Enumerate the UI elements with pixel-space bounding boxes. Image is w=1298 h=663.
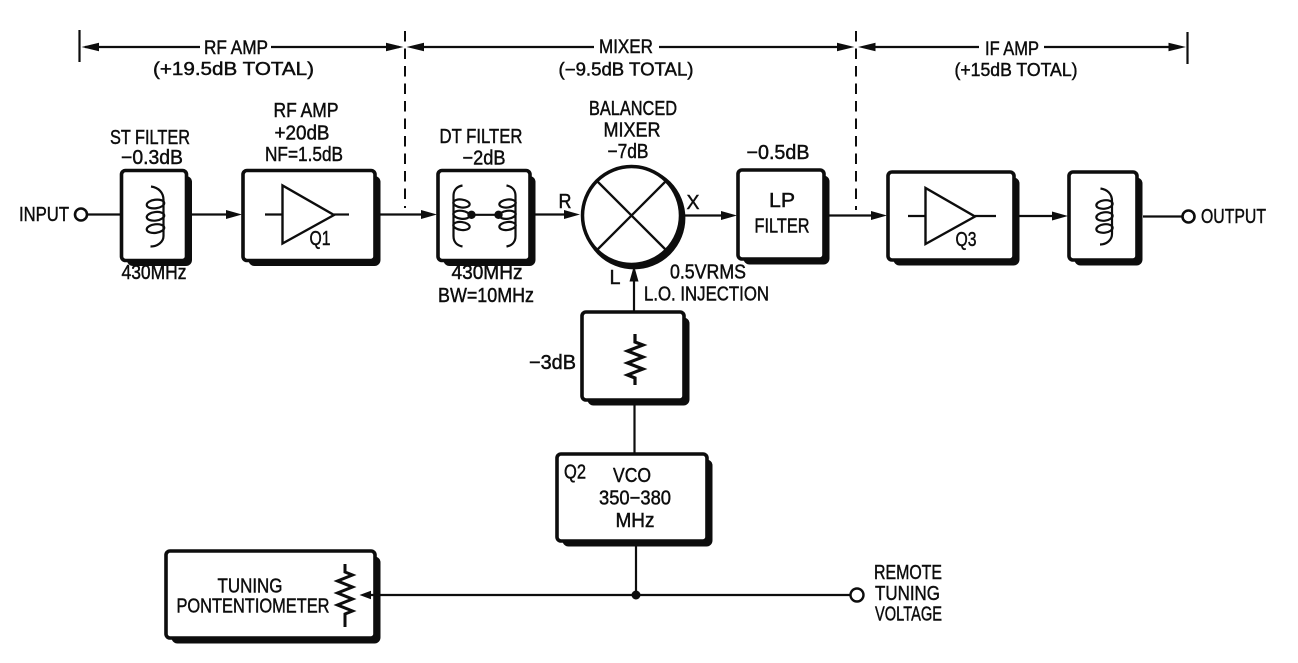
block LP FILTER xyxy=(738,142,830,265)
svg-text:VCO: VCO xyxy=(613,465,651,487)
transformer coil right inside DT filter xyxy=(499,186,516,247)
block FL1 ST FILTER xyxy=(110,127,192,284)
svg-text:−0.5dB: −0.5dB xyxy=(747,142,810,164)
svg-text:L: L xyxy=(610,267,621,289)
svg-text:430MHz: 430MHz xyxy=(122,262,187,284)
wire VCO to tuning junction xyxy=(635,546,637,595)
svg-text:L.O. INJECTION: L.O. INJECTION xyxy=(644,284,769,306)
svg-text:IF AMP: IF AMP xyxy=(985,39,1039,60)
bracket span RF AMP (+19.5dB TOTAL) xyxy=(80,30,404,79)
wire DT filter to mixer R port xyxy=(533,191,580,219)
wire RF amp to DT filter xyxy=(380,210,437,219)
balanced mixer xyxy=(583,98,683,267)
junction node xyxy=(632,591,641,600)
svg-text:NF=1.5dB: NF=1.5dB xyxy=(265,144,343,166)
svg-text:REMOTE: REMOTE xyxy=(874,562,942,584)
svg-text:RF AMP: RF AMP xyxy=(274,100,339,122)
svg-text:(+15dB TOTAL): (+15dB TOTAL) xyxy=(955,60,1078,80)
REMOTE TUNING VOLTAGE terminal xyxy=(851,562,943,626)
amplifier block Q1 RF AMP xyxy=(243,100,381,266)
block output filter xyxy=(1069,172,1143,266)
svg-text:DT FILTER: DT FILTER xyxy=(440,126,523,148)
svg-text:−3dB: −3dB xyxy=(529,352,576,374)
block -3dB attenuator xyxy=(529,312,690,406)
svg-text:−7dB: −7dB xyxy=(608,141,649,163)
svg-text:TUNING: TUNING xyxy=(875,583,940,605)
svg-text:X: X xyxy=(687,192,700,214)
amplifier triangle Q1 xyxy=(265,186,349,251)
inductor coil inside ST filter xyxy=(146,187,165,247)
section divider dashed line MIXER/IF xyxy=(855,31,857,210)
svg-text:BALANCED: BALANCED xyxy=(589,98,677,120)
svg-text:430MHz: 430MHz xyxy=(452,262,523,284)
transformer coil left inside DT filter xyxy=(453,186,470,247)
svg-text:FILTER: FILTER xyxy=(755,216,810,238)
svg-text:(+19.5dB TOTAL): (+19.5dB TOTAL) xyxy=(153,59,314,79)
bracket span MIXER (-9.5dB TOTAL) xyxy=(407,37,855,80)
svg-text:−0.3dB: −0.3dB xyxy=(121,147,183,169)
svg-text:350−380: 350−380 xyxy=(599,488,671,510)
svg-text:0.5VRMS: 0.5VRMS xyxy=(670,262,746,284)
section divider dashed line RF/MIXER xyxy=(404,31,406,208)
wire mixer X port to LP filter xyxy=(682,192,737,220)
svg-text:PONTENTIOMETER: PONTENTIOMETER xyxy=(177,596,330,618)
svg-text:MHz: MHz xyxy=(616,510,655,532)
svg-text:Q2: Q2 xyxy=(564,462,586,484)
block DT FILTER xyxy=(438,126,536,307)
wire input to ST filter xyxy=(88,213,123,215)
svg-text:R: R xyxy=(559,191,572,213)
OUTPUT terminal xyxy=(1183,206,1267,228)
svg-text:(−9.5dB TOTAL): (−9.5dB TOTAL) xyxy=(559,60,694,80)
coupling link with taps inside DT filter xyxy=(467,211,502,219)
inductor coil inside output filter xyxy=(1096,189,1113,245)
wire ST filter to RF amp xyxy=(192,210,243,219)
svg-text:+20dB: +20dB xyxy=(275,123,330,145)
bracket span IF AMP (+15dB TOTAL) xyxy=(858,32,1188,80)
wire attenuator to VCO xyxy=(633,405,635,455)
wire L.O. injection into mixer L port xyxy=(610,262,770,314)
svg-text:INPUT: INPUT xyxy=(19,204,69,226)
block Q2 VCO xyxy=(557,454,713,547)
svg-text:BW=10MHz: BW=10MHz xyxy=(438,285,534,307)
amplifier triangle Q3 xyxy=(908,188,996,251)
wire LP filter to IF amp xyxy=(829,211,887,220)
block TUNING PONTENTIOMETER xyxy=(166,551,381,644)
svg-text:RF AMP: RF AMP xyxy=(204,38,268,59)
svg-text:ST FILTER: ST FILTER xyxy=(110,127,190,149)
svg-text:TUNING: TUNING xyxy=(218,576,283,598)
amplifier block Q3 IF AMP xyxy=(888,172,1020,266)
svg-text:MIXER: MIXER xyxy=(604,120,661,142)
svg-text:Q3: Q3 xyxy=(956,229,977,251)
svg-text:LP: LP xyxy=(769,190,795,212)
potentiometer resistor inside tuning block xyxy=(338,564,353,627)
wire IF amp to output filter xyxy=(1019,212,1068,221)
svg-text:Q1: Q1 xyxy=(310,228,331,250)
INPUT terminal xyxy=(19,204,87,226)
svg-text:OUTPUT: OUTPUT xyxy=(1201,206,1266,228)
svg-text:VOLTAGE: VOLTAGE xyxy=(875,604,942,626)
resistor inside -3dB attenuator xyxy=(628,334,644,385)
svg-text:MIXER: MIXER xyxy=(599,37,653,58)
tuning bus wire to potentiometer and remote terminal xyxy=(360,591,851,600)
svg-text:−2dB: −2dB xyxy=(463,148,506,170)
wire output filter to OUTPUT terminal xyxy=(1143,215,1182,217)
